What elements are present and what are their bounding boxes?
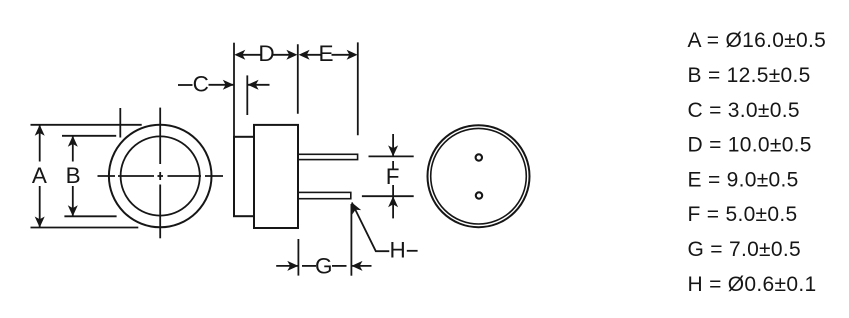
dimension F vertical line with arrows [392,134,394,156]
dimension G left extension line [297,239,299,276]
rear view upper pin hole [476,154,482,160]
svg-text:E = 9.0±0.5: E = 9.0±0.5 [688,168,799,191]
short tick above front view [119,108,121,138]
dimension F top extension line [369,155,414,157]
upper lead [298,154,358,159]
svg-text:H = Ø0.6±0.1: H = Ø0.6±0.1 [688,273,817,296]
rear view inner ring [431,128,527,224]
dimension A line with arrows [39,125,41,162]
dash after label H [407,250,418,252]
dimension C right arrow [248,84,270,86]
rear view outer circle [428,125,530,227]
svg-text:E: E [318,41,333,66]
svg-text:H: H [389,238,405,263]
extension line at flange left [233,43,235,137]
front view horizontal centerline [98,175,224,177]
front view inner circle [121,136,200,215]
dimension G right extension line [350,204,352,276]
svg-text:F = 5.0±0.5: F = 5.0±0.5 [688,203,798,226]
dimension F bottom extension line [362,195,414,197]
svg-text:A: A [32,163,47,188]
dimension A bottom extension line [31,227,139,229]
svg-text:D = 10.0±0.5: D = 10.0±0.5 [688,134,812,157]
dimension B line with arrows [72,136,74,162]
svg-text:A = Ø16.0±0.5: A = Ø16.0±0.5 [688,29,827,52]
front view outer circle [109,125,212,228]
svg-text:B = 12.5±0.5: B = 12.5±0.5 [688,64,811,87]
svg-text:G: G [315,254,333,279]
dimension A top extension line [31,124,142,126]
dimension C label and leader [178,84,193,86]
svg-text:G = 7.0±0.5: G = 7.0±0.5 [688,238,801,261]
extension line at lead end [357,42,359,135]
dimension D line with arrows [239,54,261,56]
rear view lower pin hole [476,192,482,198]
leader line H with arrow [352,203,390,252]
dimension E line with arrows [303,54,321,56]
svg-text:B: B [66,163,81,188]
svg-text:F: F [386,164,400,189]
svg-text:C = 3.0±0.5: C = 3.0±0.5 [688,99,800,122]
svg-text:D: D [258,41,274,66]
extension line at body right [297,44,299,114]
svg-text:C: C [193,72,209,97]
dimension G line with arrows [276,265,298,267]
lower lead [298,192,351,198]
front view vertical centerline [159,108,161,239]
side view flange rectangle [234,137,254,216]
dimension B top extension line [62,135,116,137]
side view body rectangle [254,125,298,228]
dimension B bottom extension line [64,215,116,217]
dimension C right extension line [246,75,248,115]
